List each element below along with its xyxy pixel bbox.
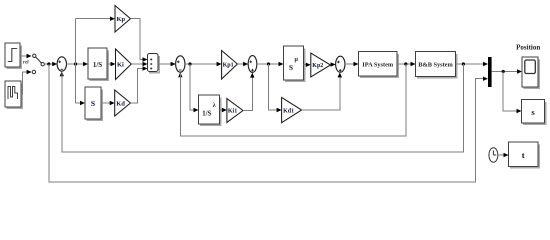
gain Kd: [115, 90, 131, 116]
node IPA output junction: [404, 62, 407, 65]
svg-text:Ki: Ki: [117, 61, 124, 68]
node sum A output junction: [188, 62, 191, 65]
arrowhead into fractional derivative S^mu: [279, 62, 284, 66]
arrowhead into scope: [517, 69, 522, 73]
wire sum B output: [257, 63, 279, 65]
sum C (fractional PD output adder): [336, 56, 345, 72]
derivative block S: [85, 87, 102, 120]
svg-text:μ: μ: [295, 57, 299, 63]
integrator block 1/S: [88, 48, 108, 80]
wire mux output to scope: [492, 71, 518, 73]
sum A (fractional PI loop): [176, 56, 185, 72]
node sum B output junction: [267, 62, 270, 65]
arrowhead into integrator 1/S: [83, 62, 88, 66]
arrowhead into workspace s: [517, 109, 522, 113]
arrowhead into mux input 2: [483, 77, 488, 81]
arrowhead into B&B System: [411, 62, 416, 66]
svg-text:B&B System: B&B System: [418, 62, 453, 69]
wire B&B System to mux: [456, 63, 484, 65]
arrowhead into fractional integrator 1/S^lambda: [194, 108, 199, 112]
sum S1: [57, 57, 66, 71]
step source block: [5, 43, 21, 68]
arrowhead into derivative S: [80, 101, 85, 105]
svg-text:1/S: 1/S: [202, 111, 211, 118]
svg-text:Kd: Kd: [116, 100, 125, 107]
svg-text:ref: ref: [23, 61, 29, 66]
arrowhead into gain Ki1: [222, 108, 227, 112]
wire inner feedback IPA output to sum A: [180, 64, 405, 136]
svg-text:IPA System: IPA System: [362, 62, 394, 69]
arrowhead into gain Kp: [110, 17, 115, 21]
arrowhead into workspace t: [504, 153, 509, 157]
manual switch: [32, 54, 44, 74]
wire sum C to IPA System: [345, 63, 354, 65]
wire sum S1 output to PID branch junction: [67, 63, 85, 65]
node ref tap junction: [47, 62, 50, 65]
subsystem IPA System: [359, 52, 399, 78]
wire gain Kp1 to sum B: [237, 63, 243, 65]
svg-text:λ: λ: [213, 103, 216, 109]
wire fractional integrator to gain Ki1: [220, 109, 223, 111]
svg-text:1/S: 1/S: [93, 61, 102, 69]
arrowhead into gain Kp2: [306, 63, 311, 67]
arrowhead into sum A: [171, 62, 176, 66]
svg-text:Ki1: Ki1: [228, 109, 237, 115]
wire pulse generator to switch: [21, 72, 28, 94]
subsystem B&B System: [416, 52, 457, 78]
wire gain Kp2 to sum C: [330, 64, 333, 66]
to-workspace block t: [509, 142, 540, 168]
arrowhead into sum C bottom: [338, 72, 342, 77]
svg-text:Kp: Kp: [117, 16, 126, 23]
svg-text:Kp1: Kp1: [223, 62, 234, 68]
arrowhead into gain Kd: [110, 101, 115, 105]
arrowhead into sum C: [331, 62, 336, 66]
arrowhead into sum B: [243, 62, 248, 66]
wire step to switch: [20, 55, 28, 57]
arrowhead step output: [27, 54, 32, 58]
gain Kd1: [282, 97, 302, 122]
wire gain Kp to sum block port1: [131, 19, 144, 60]
wire branch to gain Kd1: [269, 64, 278, 110]
wire outer feedback B&B output to sum S1: [62, 64, 464, 152]
arrowhead into gain Kp1: [217, 62, 222, 66]
wire PID branch vertical: [75, 19, 77, 103]
svg-text:Position: Position: [516, 44, 540, 52]
wire mux output down to workspace s: [503, 72, 517, 112]
sum B (fractional PI output adder): [248, 56, 257, 73]
wire gain Ki1 up to sum B bottom: [243, 77, 252, 111]
to-workspace block s: [522, 100, 546, 125]
gain Kp1: [222, 51, 238, 80]
node PID branch junction: [74, 62, 77, 65]
fractional integrator block 1/S^lambda: [199, 95, 221, 125]
wire integrator 1/S to gain Ki: [107, 63, 112, 65]
arrowhead into gain Kd1: [277, 108, 282, 112]
node B&B output junction: [462, 62, 465, 65]
arrowhead into sum B bottom: [250, 73, 254, 78]
pulse generator block: [5, 81, 22, 108]
arrowhead into gain Ki: [111, 62, 116, 66]
svg-text:S: S: [91, 99, 95, 108]
gain Ki: [116, 49, 132, 80]
arrowhead feedback into sum S1 bottom: [60, 71, 64, 76]
wire sum A output: [185, 63, 217, 65]
wire gain Kd1 up to sum C bottom: [302, 77, 340, 111]
wire sum block to sum A: [158, 63, 171, 65]
wire clock to workspace t: [498, 154, 504, 156]
svg-text:Kp2: Kp2: [312, 63, 323, 69]
gain Kp: [115, 6, 131, 33]
fractional derivative block S^mu: [284, 46, 305, 81]
wire switch to sum S1: [44, 63, 53, 65]
arrowhead into mux input 1: [483, 62, 488, 66]
arrowhead pulse input to switch: [27, 70, 32, 74]
wire S^mu to gain Kp2: [304, 64, 307, 66]
svg-text:Kd1: Kd1: [283, 108, 294, 114]
scope Position: [522, 57, 539, 88]
arrowhead sum block port3: [143, 66, 148, 70]
wire gain Kd to sum block port3: [131, 69, 144, 104]
sum block (rectangular, PID adder): [148, 54, 160, 73]
arrowhead into IPA System: [354, 62, 359, 66]
wire to gain Kp: [76, 18, 111, 20]
arrowhead feedback into sum A bottom: [178, 72, 182, 77]
arrowhead sum block port2: [143, 62, 148, 66]
label Position: [516, 44, 540, 52]
arrowhead into sum S1: [52, 62, 57, 66]
node mux output junction: [502, 70, 505, 73]
wire to derivative S: [76, 102, 81, 104]
arrowhead sum block port1: [143, 57, 148, 61]
gain Ki1: [227, 99, 243, 123]
wire derivative S to gain Kd: [101, 102, 110, 104]
svg-text:S: S: [289, 63, 293, 72]
wire reference line to mux input 2: [49, 64, 484, 182]
label ref: [23, 61, 29, 66]
wire IPA System to B&B System: [397, 63, 411, 65]
wire gain Ki to sum block port2: [131, 63, 143, 65]
svg-text:t: t: [522, 150, 525, 160]
gain Kp2: [311, 53, 331, 77]
wire branch to fractional integrator: [190, 64, 194, 110]
clock: [489, 148, 498, 162]
mux: [488, 57, 492, 87]
